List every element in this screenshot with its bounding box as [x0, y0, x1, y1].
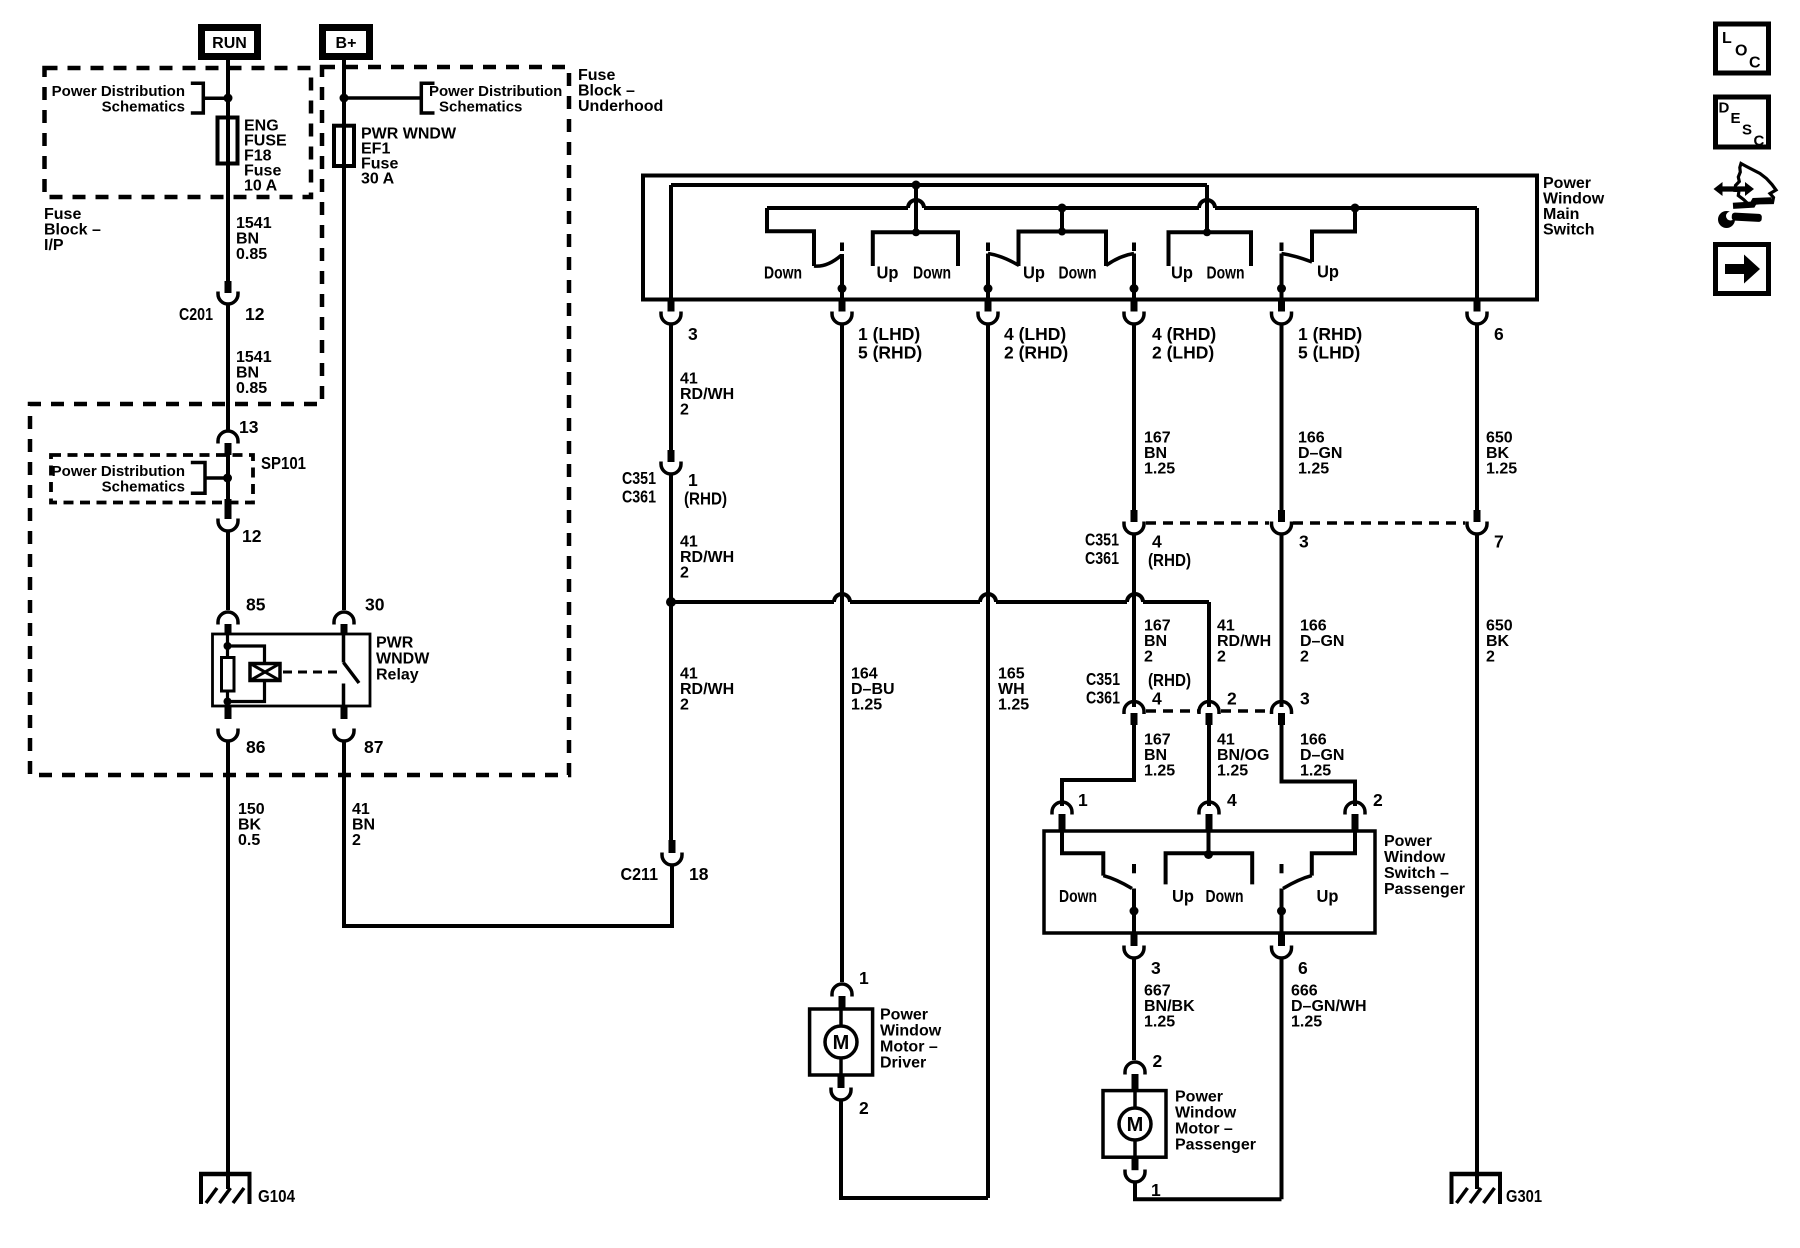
contact dash section2 [986, 243, 990, 252]
svg-text:(RHD): (RHD) [684, 489, 727, 509]
svg-text:BK: BK [1486, 633, 1510, 650]
connector pass switch pin 6 [1278, 933, 1285, 946]
svg-text:166: 166 [1300, 618, 1327, 635]
svg-text:1: 1 [1151, 1180, 1161, 1200]
svg-text:BN: BN [1144, 445, 1167, 462]
svg-text:Switch: Switch [1543, 222, 1595, 239]
fuse block I/P dashed box [45, 68, 312, 197]
icon wrench [1718, 211, 1735, 228]
svg-text:667: 667 [1144, 983, 1171, 1000]
svg-text:1.25: 1.25 [1144, 763, 1175, 780]
wire 667 BN/BK [1132, 959, 1136, 1060]
svg-text:Down: Down [1059, 886, 1097, 906]
svg-text:166: 166 [1298, 430, 1325, 447]
motor passenger internal wires [1133, 1091, 1137, 1158]
svg-text:Down: Down [1207, 263, 1245, 283]
svg-text:3: 3 [1151, 958, 1161, 978]
node B+ tap [340, 94, 349, 103]
svg-text:Motor –: Motor – [880, 1039, 938, 1056]
connector pass switch pin 3 [1131, 933, 1138, 946]
svg-text:C361: C361 [1085, 548, 1119, 568]
node SP101 splice [223, 474, 232, 483]
svg-text:167: 167 [1144, 732, 1171, 749]
wire 41 RD/WH upper [669, 325, 673, 452]
wire 41 to pass pin4 [1207, 725, 1211, 806]
svg-text:0.85: 0.85 [236, 246, 267, 263]
svg-text:41: 41 [1217, 618, 1235, 635]
svg-text:D–GN: D–GN [1298, 445, 1342, 462]
svg-text:L: L [1722, 30, 1732, 47]
motor driver internal wires [839, 1009, 843, 1075]
contact dash pass left [1132, 864, 1136, 873]
svg-text:Window: Window [1384, 849, 1446, 866]
connector main switch pin 4RHD [1131, 300, 1138, 312]
power window motor passenger box [1103, 1091, 1166, 1158]
svg-text:2 (RHD): 2 (RHD) [1004, 343, 1068, 363]
wire 167 to pass pin1 [1062, 725, 1134, 806]
connector pass switch pin 1 [1052, 802, 1072, 815]
svg-text:I/P: I/P [44, 237, 64, 254]
node bus1 tap [912, 181, 921, 190]
switch blade pass up [1283, 876, 1312, 889]
wire pin6 drop [1475, 208, 1479, 300]
svg-text:Power: Power [1175, 1089, 1223, 1106]
svg-text:1.25: 1.25 [998, 697, 1029, 714]
fuse block underhood dashed outline [30, 67, 569, 775]
svg-text:C211: C211 [621, 864, 659, 884]
svg-text:WH: WH [998, 681, 1025, 698]
svg-text:2: 2 [1300, 649, 1309, 666]
svg-text:PWR: PWR [376, 635, 414, 652]
relay actuation dashed link [283, 671, 339, 674]
svg-text:3: 3 [1300, 689, 1310, 709]
svg-text:WNDW: WNDW [376, 651, 430, 668]
power distribution schematics bracket (I/P) [191, 83, 228, 113]
wire pass output right [1280, 889, 1284, 934]
svg-text:1541: 1541 [236, 349, 272, 366]
svg-text:2: 2 [1227, 689, 1237, 709]
node bus2 tap D [1351, 204, 1360, 213]
switch blade pass down [1103, 876, 1132, 889]
wire section2 output [986, 254, 990, 300]
dashed connector link row2 a [1146, 709, 1198, 713]
svg-text:Fuse: Fuse [578, 67, 615, 84]
svg-text:BN/OG: BN/OG [1217, 747, 1269, 764]
svg-text:1: 1 [859, 968, 869, 988]
connector pass switch pin 2 [1345, 802, 1365, 815]
wire pass output left [1132, 889, 1136, 934]
wire 164 D-BU [840, 325, 844, 982]
svg-text:D–GN: D–GN [1300, 633, 1344, 650]
wire pass feed right L [1312, 831, 1355, 876]
power window motor driver box [810, 1009, 873, 1075]
switch blade section2 up [988, 254, 1019, 266]
svg-text:Switch –: Switch – [1384, 865, 1449, 882]
svg-text:1: 1 [1078, 790, 1088, 810]
fuse ENG FUSE F18 [218, 118, 238, 164]
svg-text:D: D [1719, 100, 1730, 117]
svg-text:Driver: Driver [880, 1055, 926, 1072]
svg-text:Schematics: Schematics [439, 99, 522, 116]
svg-text:C: C [1754, 133, 1765, 150]
svg-text:Main: Main [1543, 206, 1579, 223]
wire 41 RD/WH middle [669, 475, 673, 602]
icon compare tail bar [1733, 200, 1772, 205]
svg-text:41: 41 [680, 666, 698, 683]
svg-text:2: 2 [680, 402, 689, 419]
svg-text:1 (RHD): 1 (RHD) [1298, 324, 1362, 344]
svg-text:Power Distribution: Power Distribution [429, 83, 562, 100]
node relay coil bottom [224, 698, 232, 706]
connector row2 pin3 wire166 [1272, 702, 1292, 715]
svg-text:3: 3 [1299, 532, 1309, 552]
wire 166 D-GN middle [1280, 535, 1284, 707]
svg-text:7: 7 [1494, 532, 1504, 552]
node section4 output [1277, 284, 1286, 293]
svg-text:41: 41 [680, 534, 698, 551]
svg-text:Block –: Block – [578, 83, 635, 100]
connector pass motor pin 1 [1132, 1157, 1139, 1170]
svg-text:1.25: 1.25 [1486, 461, 1517, 478]
relay coil branch wires [228, 634, 265, 706]
svg-text:Window: Window [880, 1023, 942, 1040]
svg-text:86: 86 [246, 737, 266, 757]
connector main switch pin 1RHD [1278, 300, 1285, 312]
svg-text:M: M [1127, 1114, 1144, 1136]
connector C351 row2 wire167 [1124, 702, 1144, 715]
node section3 output [1130, 284, 1139, 293]
wire section3 output [1132, 254, 1136, 300]
wire 150 BK to ground [226, 742, 230, 1174]
wire 166 D-GN upper [1280, 325, 1284, 512]
wire to relay 85 [226, 532, 230, 610]
svg-text:Passenger: Passenger [1384, 881, 1465, 898]
svg-text:30: 30 [365, 595, 385, 615]
svg-text:666: 666 [1291, 983, 1318, 1000]
svg-text:Up: Up [1172, 886, 1194, 906]
power rail box RUN [202, 28, 258, 57]
svg-text:650: 650 [1486, 618, 1513, 635]
svg-text:4: 4 [1152, 532, 1162, 552]
svg-text:1.25: 1.25 [1144, 1014, 1175, 1031]
svg-text:18: 18 [689, 864, 709, 884]
svg-text:Passenger: Passenger [1175, 1137, 1256, 1154]
svg-text:Power: Power [1384, 833, 1432, 850]
svg-text:12: 12 [242, 526, 262, 546]
wire pass feed left L [1062, 831, 1103, 876]
svg-text:6: 6 [1494, 324, 1504, 344]
svg-text:1 (LHD): 1 (LHD) [858, 324, 920, 344]
power rail box B+ [323, 28, 370, 57]
connector C211 [669, 840, 676, 853]
power window main switch box [643, 176, 1537, 300]
connector main switch pin 6 [1474, 300, 1481, 312]
relay PWR WNDW box [213, 634, 371, 706]
svg-text:2: 2 [1373, 790, 1383, 810]
node pass output left [1130, 907, 1139, 916]
svg-text:1.25: 1.25 [1300, 763, 1331, 780]
wire 666 D-GN/WH [1280, 959, 1284, 1199]
node bracket C center [1203, 228, 1211, 236]
node RUN tap [224, 94, 233, 103]
svg-text:150: 150 [238, 801, 265, 818]
wire 166 to pass pin2 [1282, 725, 1356, 806]
relay resistor [222, 658, 235, 692]
connector pass switch pin 4 [1199, 802, 1219, 815]
connector row1 pin3 wire166 [1278, 510, 1285, 522]
icon compare outline arrow [1735, 164, 1776, 204]
ground G301 [1450, 1172, 1503, 1177]
svg-text:G104: G104 [258, 1186, 295, 1206]
svg-text:2: 2 [680, 697, 689, 714]
icon DESC box [1716, 97, 1769, 147]
svg-text:0.85: 0.85 [236, 380, 267, 397]
svg-text:(RHD): (RHD) [1148, 670, 1191, 690]
svg-text:41: 41 [1217, 732, 1235, 749]
svg-text:1.25: 1.25 [1291, 1014, 1322, 1031]
svg-text:B+: B+ [336, 35, 357, 52]
connector driver motor pin 1 [832, 984, 852, 997]
svg-text:Up: Up [1317, 262, 1339, 282]
svg-text:1.25: 1.25 [1217, 763, 1248, 780]
svg-text:RD/WH: RD/WH [680, 549, 734, 566]
svg-text:1: 1 [688, 470, 698, 490]
wire feed bracket A [914, 185, 918, 232]
svg-text:SP101: SP101 [261, 453, 306, 473]
wire 41 BN from relay 87 [344, 742, 672, 926]
svg-text:O: O [1735, 43, 1747, 60]
wire 165 WH [986, 325, 990, 1198]
connector relay pin 86 [225, 706, 232, 719]
connector C201 [225, 281, 232, 293]
icon LOC box [1716, 24, 1769, 73]
wire 650 BK lower [1475, 535, 1479, 1174]
svg-text:C351: C351 [1085, 530, 1119, 550]
wire section4 output [1280, 254, 1284, 300]
connector main switch pin 3 [668, 300, 675, 312]
icon arrow box [1716, 245, 1769, 294]
svg-text:BN: BN [236, 365, 259, 382]
connector pin 12 lower [225, 499, 232, 519]
connector pass motor pin 2 [1125, 1062, 1145, 1075]
svg-text:Down: Down [764, 263, 802, 283]
switch blade section3 down [1106, 254, 1134, 266]
fuse PWR WNDW EF1 [334, 126, 354, 166]
svg-text:M: M [833, 1032, 850, 1054]
svg-text:650: 650 [1486, 430, 1513, 447]
svg-text:167: 167 [1144, 618, 1171, 635]
wire pin3 riser [669, 185, 673, 300]
wire feed section 4 [1312, 208, 1355, 262]
dashed connector link row1 a [1146, 521, 1269, 525]
svg-text:BK: BK [1486, 445, 1510, 462]
svg-text:D–BU: D–BU [851, 681, 895, 698]
svg-text:164: 164 [851, 666, 878, 683]
svg-text:Down: Down [1206, 886, 1244, 906]
svg-text:D–GN: D–GN [1300, 747, 1344, 764]
connector main switch pin 1/5 [839, 300, 846, 312]
svg-text:Up: Up [1317, 886, 1339, 906]
svg-text:1.25: 1.25 [851, 697, 882, 714]
wire 167 BN upper [1132, 325, 1136, 512]
wire RUN feed [226, 60, 230, 284]
svg-text:BN: BN [352, 817, 375, 834]
svg-text:Power: Power [880, 1007, 928, 1024]
svg-text:0.5: 0.5 [238, 832, 260, 849]
wire pass motor return [1135, 1183, 1282, 1199]
svg-text:87: 87 [364, 737, 383, 757]
svg-text:S: S [1742, 122, 1752, 139]
svg-text:C351: C351 [1086, 669, 1120, 689]
svg-text:E: E [1731, 110, 1741, 127]
svg-text:Motor –: Motor – [1175, 1121, 1233, 1138]
wire B+ tap branch [344, 96, 421, 100]
svg-text:1541: 1541 [236, 215, 272, 232]
switch blade section4 up [1282, 254, 1313, 263]
svg-text:4: 4 [1227, 790, 1237, 810]
contact bracket B [1019, 232, 1107, 267]
contact bracket C [1169, 232, 1252, 266]
power distribution schematics dashed box (SP101) [51, 455, 253, 503]
svg-text:30 A: 30 A [361, 171, 395, 188]
svg-text:10 A: 10 A [244, 178, 278, 195]
svg-text:1.25: 1.25 [1298, 461, 1329, 478]
relay switch contact [344, 634, 360, 706]
svg-text:Up: Up [1023, 263, 1045, 283]
switch blade driver down [814, 256, 841, 267]
power window switch passenger box [1044, 831, 1375, 933]
connector C351 row1 wire167 [1131, 510, 1138, 522]
svg-text:41: 41 [680, 371, 698, 388]
svg-text:RD/WH: RD/WH [1217, 633, 1271, 650]
dashed connector link row2 b [1221, 709, 1270, 713]
svg-text:13: 13 [239, 417, 259, 437]
wire 41 horizontal with hops [671, 594, 1209, 707]
node section2 output [984, 284, 993, 293]
svg-text:12: 12 [245, 304, 265, 324]
node bracket A center [912, 228, 920, 236]
svg-text:C361: C361 [622, 487, 656, 507]
svg-text:167: 167 [1144, 430, 1171, 447]
power distribution schematics bracket (underhood) [421, 83, 434, 113]
wire bus2 with hops [767, 200, 1477, 208]
contact bracket A [873, 232, 958, 266]
connector relay pin 87 [341, 706, 348, 719]
motor passenger circle [1119, 1108, 1151, 1140]
svg-text:4 (LHD): 4 (LHD) [1004, 324, 1066, 344]
svg-text:2: 2 [1153, 1051, 1163, 1071]
svg-text:Schematics: Schematics [102, 99, 185, 116]
node bus2 tap B [1058, 204, 1067, 213]
svg-text:85: 85 [246, 595, 266, 615]
connector row2 pin2 wire41 [1199, 702, 1219, 715]
svg-text:C: C [1749, 55, 1761, 72]
contact dash section3 [1132, 243, 1136, 252]
svg-text:2: 2 [1144, 649, 1153, 666]
wire driver motor return [841, 1101, 988, 1198]
contact dash pass right [1280, 864, 1284, 873]
svg-text:D–GN/WH: D–GN/WH [1291, 998, 1367, 1015]
connector main switch pin 4/2 [985, 300, 992, 312]
svg-text:5 (RHD): 5 (RHD) [858, 343, 922, 363]
svg-text:2: 2 [1486, 649, 1495, 666]
svg-text:Up: Up [877, 263, 899, 283]
icon compare double arrow [1721, 186, 1747, 191]
node junction 41 [666, 597, 676, 607]
wire feed bracket B [1060, 208, 1064, 232]
node driver output [838, 284, 847, 293]
svg-text:Power: Power [1543, 175, 1591, 192]
svg-text:Down: Down [913, 263, 951, 283]
ground G104 [199, 1172, 252, 1177]
svg-text:41: 41 [352, 801, 370, 818]
svg-text:BK: BK [238, 817, 262, 834]
node pass bracket center [1204, 850, 1213, 859]
connector relay pin 85 [218, 612, 238, 625]
svg-text:2: 2 [352, 832, 361, 849]
wire into SP101 [226, 455, 230, 500]
wire bus1 [671, 183, 1207, 187]
svg-text:Window: Window [1175, 1105, 1237, 1122]
svg-text:5 (LHD): 5 (LHD) [1298, 343, 1360, 363]
svg-text:2 (LHD): 2 (LHD) [1152, 343, 1214, 363]
svg-text:4: 4 [1152, 689, 1162, 709]
wire driver output [840, 254, 844, 300]
svg-text:2: 2 [859, 1098, 869, 1118]
svg-text:RD/WH: RD/WH [680, 681, 734, 698]
svg-text:4 (RHD): 4 (RHD) [1152, 324, 1216, 344]
svg-text:Down: Down [1059, 263, 1097, 283]
node relay coil top [224, 642, 232, 650]
svg-text:G301: G301 [1506, 1186, 1542, 1206]
svg-text:2: 2 [1217, 649, 1226, 666]
node bracket B center [1058, 228, 1066, 236]
svg-text:C201: C201 [179, 304, 213, 324]
svg-text:C351: C351 [622, 468, 656, 488]
svg-text:Power Distribution: Power Distribution [52, 83, 185, 100]
wire 650 BK upper [1475, 325, 1479, 512]
relay coil [250, 664, 280, 681]
motor driver circle [825, 1026, 857, 1058]
node pass output right [1277, 907, 1286, 916]
wire pass feed center [1207, 831, 1211, 853]
contact dash driver [840, 243, 844, 252]
svg-text:BN/BK: BN/BK [1144, 998, 1195, 1015]
dashed connector link row1 b [1293, 521, 1465, 525]
svg-text:165: 165 [998, 666, 1025, 683]
svg-text:Window: Window [1543, 190, 1605, 207]
svg-text:6: 6 [1298, 958, 1308, 978]
svg-text:166: 166 [1300, 732, 1327, 749]
wire 41 RD/WH lower drop [669, 602, 673, 840]
svg-text:RD/WH: RD/WH [680, 386, 734, 403]
svg-text:BN: BN [1144, 747, 1167, 764]
svg-text:Relay: Relay [376, 667, 419, 684]
connector relay pin 30 [334, 612, 354, 625]
svg-text:Up: Up [1171, 263, 1193, 283]
svg-text:Power Distribution: Power Distribution [52, 463, 185, 480]
svg-text:Block –: Block – [44, 222, 101, 239]
wire B+ feed [342, 60, 346, 610]
svg-text:BN: BN [236, 231, 259, 248]
connector pin 13 [218, 431, 238, 444]
svg-text:3: 3 [688, 324, 698, 344]
wire 1541 lower [226, 305, 230, 430]
contact bracket pass [1166, 853, 1253, 884]
svg-text:RUN: RUN [212, 35, 247, 52]
svg-text:(RHD): (RHD) [1148, 550, 1191, 570]
bracket SP101 [191, 463, 228, 494]
